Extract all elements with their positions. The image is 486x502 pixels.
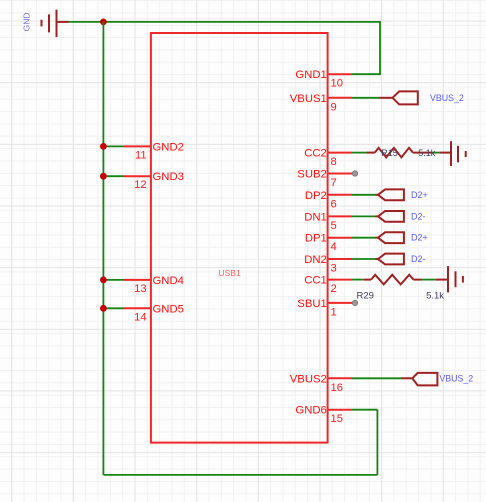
svg-text:D2+: D2+: [411, 190, 428, 200]
wire from GND flag to left bus: [69, 21, 104, 23]
wire to pin 12: [103, 175, 124, 177]
wire pin 8 to R15: [352, 152, 367, 154]
junction pin 12: [100, 173, 107, 180]
svg-text:GND: GND: [21, 12, 31, 31]
wire right vertical to GND6: [376, 410, 378, 475]
svg-text:5.1k: 5.1k: [426, 290, 444, 301]
net flag D2+ (pin 6): [376, 189, 428, 200]
net flag D2- (pin 3): [376, 254, 426, 265]
pin 7 (SUB2): [297, 169, 353, 190]
pin 1 (SBU1): [297, 298, 353, 319]
net flag VBUS_2 (pin 9): [380, 91, 464, 104]
junction pin 14: [100, 305, 107, 312]
svg-text:11: 11: [135, 149, 147, 161]
ground (top-left GND net flag): [42, 10, 69, 37]
svg-text:D2-: D2-: [411, 254, 426, 264]
svg-text:DN1: DN1: [304, 211, 327, 223]
junction pin 11: [100, 143, 107, 150]
pin 14 (GND5): [124, 303, 184, 323]
net flag D2- (pin 5): [376, 211, 426, 222]
svg-text:2: 2: [331, 283, 337, 295]
svg-text:VBUS_2: VBUS_2: [439, 374, 473, 384]
wire top horizontal to GND1 drop: [103, 22, 380, 74]
net flag VBUS_2 (pin 16): [401, 373, 473, 386]
svg-text:10: 10: [331, 78, 343, 90]
svg-text:GND3: GND3: [153, 171, 184, 183]
wire left vertical bus: [102, 22, 104, 475]
pin 4 (DP1): [305, 233, 352, 254]
svg-text:VBUS1: VBUS1: [290, 93, 327, 105]
svg-text:GND2: GND2: [153, 141, 184, 153]
svg-text:15: 15: [331, 413, 343, 425]
svg-text:D2+: D2+: [411, 233, 428, 243]
svg-text:CC1: CC1: [304, 275, 327, 287]
svg-text:VBUS_2: VBUS_2: [430, 93, 464, 103]
wire to pin 13: [103, 279, 124, 281]
svg-text:R15: R15: [381, 148, 398, 158]
wire to pin 14: [103, 307, 124, 309]
svg-text:8: 8: [331, 156, 337, 168]
svg-text:GND1: GND1: [295, 69, 326, 81]
net flag D2+ (pin 4): [376, 232, 428, 243]
wire pin 4 to D2+ flag: [352, 237, 376, 239]
unconnected pin marker (pin 7): [352, 171, 357, 176]
pin 8 (CC2): [304, 148, 352, 169]
resistor R15: [367, 148, 436, 158]
connector USB1 body: [151, 33, 328, 443]
pin 11 (GND2): [124, 141, 184, 161]
wire R29 to ground: [422, 279, 436, 281]
pin 16 (VBUS2): [290, 373, 352, 394]
svg-text:13: 13: [134, 283, 146, 295]
pin 15 (GND6): [295, 405, 352, 426]
svg-text:SBU1: SBU1: [297, 298, 327, 310]
unconnected pin marker (pin 1): [352, 300, 357, 305]
pin 2 (CC1): [304, 275, 352, 296]
svg-text:DN2: DN2: [304, 254, 327, 266]
wire pin 2 to R29: [352, 279, 364, 281]
pin 6 (DP2): [305, 190, 352, 211]
svg-text:GND4: GND4: [153, 275, 184, 287]
svg-text:CC2: CC2: [304, 148, 327, 160]
pin 10 (GND1): [295, 69, 352, 90]
ground (R29): [436, 266, 463, 292]
resistor R29: [357, 275, 445, 302]
svg-text:DP1: DP1: [305, 233, 327, 245]
wire pin 9 to VBUS_2 flag: [352, 97, 380, 99]
wire bottom horizontal: [103, 474, 377, 476]
svg-text:6: 6: [331, 198, 337, 210]
svg-text:5: 5: [331, 220, 337, 232]
svg-text:5.1k: 5.1k: [418, 148, 436, 158]
svg-text:16: 16: [331, 382, 343, 394]
svg-text:1: 1: [331, 306, 337, 318]
svg-text:USB1: USB1: [218, 268, 240, 278]
svg-text:3: 3: [331, 263, 337, 275]
wire to pin 11: [103, 145, 124, 147]
pin 9 (VBUS1): [290, 93, 352, 114]
svg-text:7: 7: [331, 177, 337, 189]
wire GND6 horizontal: [352, 409, 377, 411]
wire R15 to ground: [432, 152, 439, 154]
junction top-left: [100, 19, 107, 26]
junction pin 13: [100, 277, 107, 284]
svg-text:9: 9: [331, 101, 337, 113]
svg-text:GND5: GND5: [153, 303, 184, 315]
svg-text:D2-: D2-: [411, 211, 426, 221]
ground (R15): [439, 141, 465, 166]
svg-text:SUB2: SUB2: [297, 169, 327, 181]
svg-text:4: 4: [331, 241, 337, 253]
svg-text:GND6: GND6: [295, 405, 326, 417]
pin 3 (DN2): [304, 254, 352, 275]
pin 5 (DN1): [304, 211, 352, 232]
pin 13 (GND4): [124, 275, 184, 295]
svg-text:12: 12: [134, 179, 146, 191]
svg-text:14: 14: [134, 311, 146, 323]
wire pin 3 to D2- flag: [352, 258, 376, 260]
wire pin 6 to D2+ flag: [352, 194, 376, 196]
wire pin 16 to VBUS_2 flag: [352, 377, 401, 379]
pin 12 (GND3): [124, 171, 184, 191]
svg-text:DP2: DP2: [305, 190, 327, 202]
svg-text:R29: R29: [357, 290, 374, 301]
wire pin 5 to D2- flag: [352, 215, 376, 217]
svg-text:VBUS2: VBUS2: [290, 373, 327, 385]
